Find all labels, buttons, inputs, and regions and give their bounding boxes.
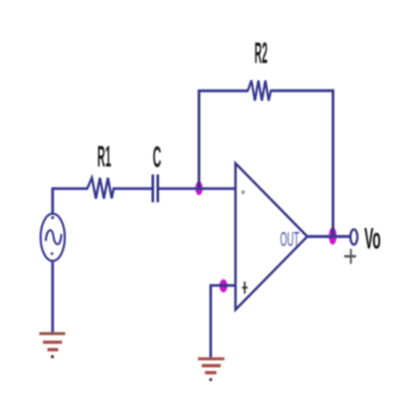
svg-text:C: C xyxy=(153,141,162,174)
wire op-amp output to terminal xyxy=(306,235,350,238)
resistor R1 xyxy=(86,178,114,199)
ground left bar2 xyxy=(43,341,62,344)
op-amp U1 xyxy=(236,163,308,309)
wire feedback vertical from input node xyxy=(198,91,201,188)
wire feedback top left to R2 xyxy=(198,89,249,92)
node output junction xyxy=(329,227,337,244)
op-amp minus input marker xyxy=(242,191,245,194)
wire source top to R1 lead xyxy=(53,189,88,214)
ground middle dot xyxy=(209,378,212,381)
ground left dot xyxy=(51,355,54,358)
wire feedback right vertical down to output node xyxy=(332,89,335,235)
svg-text:R2: R2 xyxy=(255,36,268,69)
node input junction xyxy=(195,181,202,195)
wire R2 to right corner xyxy=(270,89,334,92)
AC source V1 xyxy=(41,214,65,261)
ground middle bar2 xyxy=(202,364,221,367)
op-amp plus input marker xyxy=(242,282,248,294)
svg-text:OUT: OUT xyxy=(280,229,300,251)
node plus input junction xyxy=(219,279,227,292)
output polarity plus sign xyxy=(344,249,356,264)
resistor R2 xyxy=(248,80,271,100)
output terminal circle xyxy=(350,229,357,244)
svg-text:R1: R1 xyxy=(97,140,111,173)
wire C to op-amp minus input xyxy=(159,187,236,190)
ground middle bar1 xyxy=(198,357,224,360)
ground middle bar3 xyxy=(205,371,216,374)
AC source plus terminal dot xyxy=(51,216,54,219)
ground left bar3 xyxy=(47,348,58,351)
ground left bar1 xyxy=(39,332,65,335)
svg-text:Vo: Vo xyxy=(364,221,381,254)
AC source minus terminal dot xyxy=(51,252,54,255)
capacitor C xyxy=(153,175,158,203)
wire source bottom to ground xyxy=(51,261,54,333)
wire plus input to node xyxy=(211,285,236,357)
AC source sine wave xyxy=(46,230,62,244)
wire R1 to C xyxy=(113,187,153,190)
